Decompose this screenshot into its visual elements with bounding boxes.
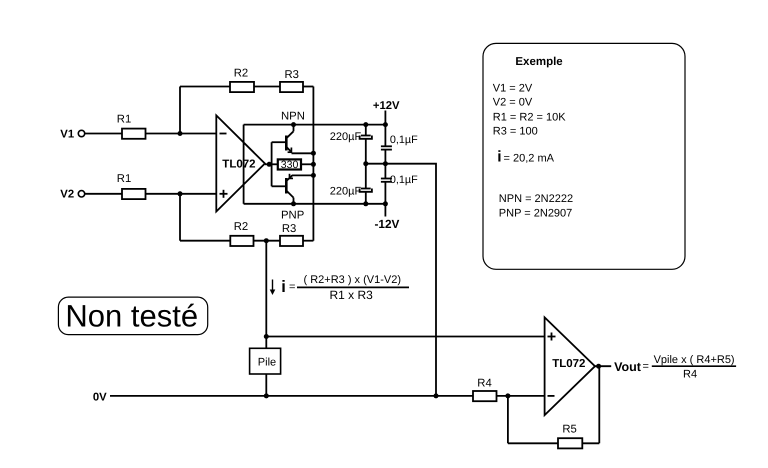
wire PNP base horizontal [272,185,287,187]
wire R5 feedback left vertical [507,396,509,443]
wire R2 to R3 [254,86,280,88]
node NPN emitter rail junction [311,151,316,156]
node C2 bottom junction [363,201,368,206]
wire feedback vertical left [179,87,181,134]
svg-text:R2: R2 [234,68,248,80]
node C1 top junction [363,122,368,127]
resistor R1 (bottom) [122,189,146,199]
node op-amp 2 output junction [596,364,601,369]
svg-text:V2: V2 [60,189,74,201]
wire right rail vertical [312,87,314,241]
capacitor C2 220uF rail [360,164,372,204]
svg-text:i: i [281,278,286,296]
svg-text:R1: R1 [117,114,131,126]
label i formula [281,274,401,302]
op-amp U2 minus input symbol [548,395,555,397]
node right vertical 0V junction [434,393,439,398]
wire R5 feedback bottom right [582,442,599,444]
op-amp U1 minus input symbol [220,133,227,135]
op-amp U2 triangle [545,317,595,415]
node op-amp output junction [267,162,272,167]
resistor R5 [558,438,582,448]
node junction V1/feedback [178,131,183,136]
transistor Q1 NPN [286,125,293,153]
node power rail bottom junction [383,201,388,206]
svg-text:220µF: 220µF [330,186,362,198]
node Pile 0V junction [264,393,269,398]
node junction R2/R3 lower [264,238,269,243]
wire R1 to op-amp inverting input [146,133,217,135]
svg-text:R3 = 100: R3 = 100 [493,125,538,137]
svg-text:+12V: +12V [373,100,400,112]
node power rail top junction [383,122,388,127]
resistor R2 (lower) [230,236,253,246]
wire R3 to right rail [303,86,313,88]
capacitor C3 0,1uF [381,146,392,178]
wire current arrow indicator [270,280,276,296]
wire Pile vertical lower [265,374,267,396]
resistor R3 (lower) [280,236,303,246]
svg-text:V1: V1 [60,128,74,140]
wire +12V rail top [384,111,386,147]
capacitor C1 220uF rail [360,125,372,164]
svg-text:R4: R4 [683,368,697,380]
svg-text:=: = [289,281,295,293]
Non teste rounded box [58,297,207,335]
wire lower feedback to R2 [180,240,230,242]
Exemple rounded box [483,43,685,269]
svg-text:R1: R1 [117,173,131,185]
node Pile top junction [264,334,269,339]
node V2 terminal [78,191,84,197]
wire NPN emitter to rail [292,152,314,154]
node 330 rail junction [311,162,316,167]
resistor R2 (top) [230,82,254,92]
wire 0V line [110,395,473,397]
wire lower feedback vertical [179,194,181,241]
svg-text:= 20,2 mA: = 20,2 mA [504,152,555,164]
wire Pile vertical upper [265,241,267,349]
svg-text:=: = [643,361,649,373]
op-amp U2 plus input symbol [548,333,556,341]
svg-text:R3: R3 [282,223,296,235]
transistor Q2 PNP [286,174,293,204]
svg-text:PNP: PNP [281,210,304,222]
wire R5 feedback right vertical [598,366,600,443]
op-amp U1 triangle [216,115,265,211]
svg-text:330: 330 [281,159,299,171]
wire R2 to R3 lower [254,240,281,242]
wire bottom rail [244,203,386,205]
svg-text:PNP = 2N2907: PNP = 2N2907 [499,207,573,219]
node junction V2/feedback [178,191,183,196]
wire transistor block left vertical [243,125,245,204]
label Vout formula [614,354,735,380]
wire R1 to op-amp non-inverting input [146,193,217,195]
svg-text:Non testé: Non testé [65,298,198,333]
wire V2 to R1 [85,193,122,195]
wire op-amp 2 output [595,365,611,367]
svg-text:0,1µF: 0,1µF [390,174,418,186]
svg-text:TL072: TL072 [222,159,255,171]
resistor 330 box [278,159,301,169]
svg-text:V1 = 2V: V1 = 2V [493,83,533,95]
svg-text:R2: R2 [234,221,248,233]
svg-text:R1 x R3: R1 x R3 [330,288,374,302]
wire mid supply to right vertical [366,164,436,396]
svg-text:0V: 0V [93,391,107,403]
resistor R3 (top) [280,82,303,92]
svg-text:Exemple: Exemple [515,56,562,68]
svg-text:V2 = 0V: V2 = 0V [493,97,533,109]
node NPN collector junction [291,122,296,127]
svg-text:NPN = 2N2222: NPN = 2N2222 [499,193,573,205]
svg-text:Vpile x ( R4+R5): Vpile x ( R4+R5) [654,354,735,366]
svg-text:Pile: Pile [258,356,276,368]
node R4 output junction [505,393,510,398]
wire op-amp output to 330 [265,163,278,165]
svg-text:R1 = R2 = 10K: R1 = R2 = 10K [493,111,566,123]
wire R3 lower to rail [303,240,313,242]
wire Pile to op-amp 2 plus input [266,336,544,338]
resistor R1 (top) [122,129,146,139]
svg-text:R5: R5 [562,424,576,436]
wire base bracket vertical [271,142,273,186]
wire V1 to R1 [85,133,122,135]
svg-text:0,1µF: 0,1µF [390,134,418,146]
wire fraction bar i formula [297,286,409,288]
svg-text:Vout: Vout [614,360,642,374]
wire NPN base horizontal [272,141,287,143]
wire R5 feedback bottom left [508,442,558,444]
node power rail mid junction [383,161,388,166]
node PNP emitter rail junction [311,173,316,178]
wire top rail [244,124,386,126]
svg-text:R3: R3 [285,69,299,81]
svg-text:-12V: -12V [375,217,400,231]
label example i [497,148,554,165]
node C2 mid junction [363,161,368,166]
op-amp U1 plus input symbol [220,190,228,198]
svg-text:220µF: 220µF [330,131,362,143]
svg-text:NPN: NPN [281,110,305,122]
wire PNP emitter to rail [292,174,313,176]
battery Pile box [250,348,281,374]
svg-text:( R2+R3 ) x (V1-V2): ( R2+R3 ) x (V1-V2) [304,274,402,286]
wire 330 to rail [301,163,313,165]
svg-text:i: i [497,148,501,165]
wire R4 to op-amp 2 minus input [497,395,545,397]
node V1 terminal [78,130,84,136]
capacitor C4 0,1uF [381,179,392,217]
svg-text:R4: R4 [477,378,491,390]
node PNP collector junction [291,201,296,206]
wire fraction bar Vout formula [652,365,736,367]
wire feedback top to R2 [180,86,230,88]
svg-text:TL072: TL072 [552,358,585,370]
resistor R4 [473,391,497,401]
